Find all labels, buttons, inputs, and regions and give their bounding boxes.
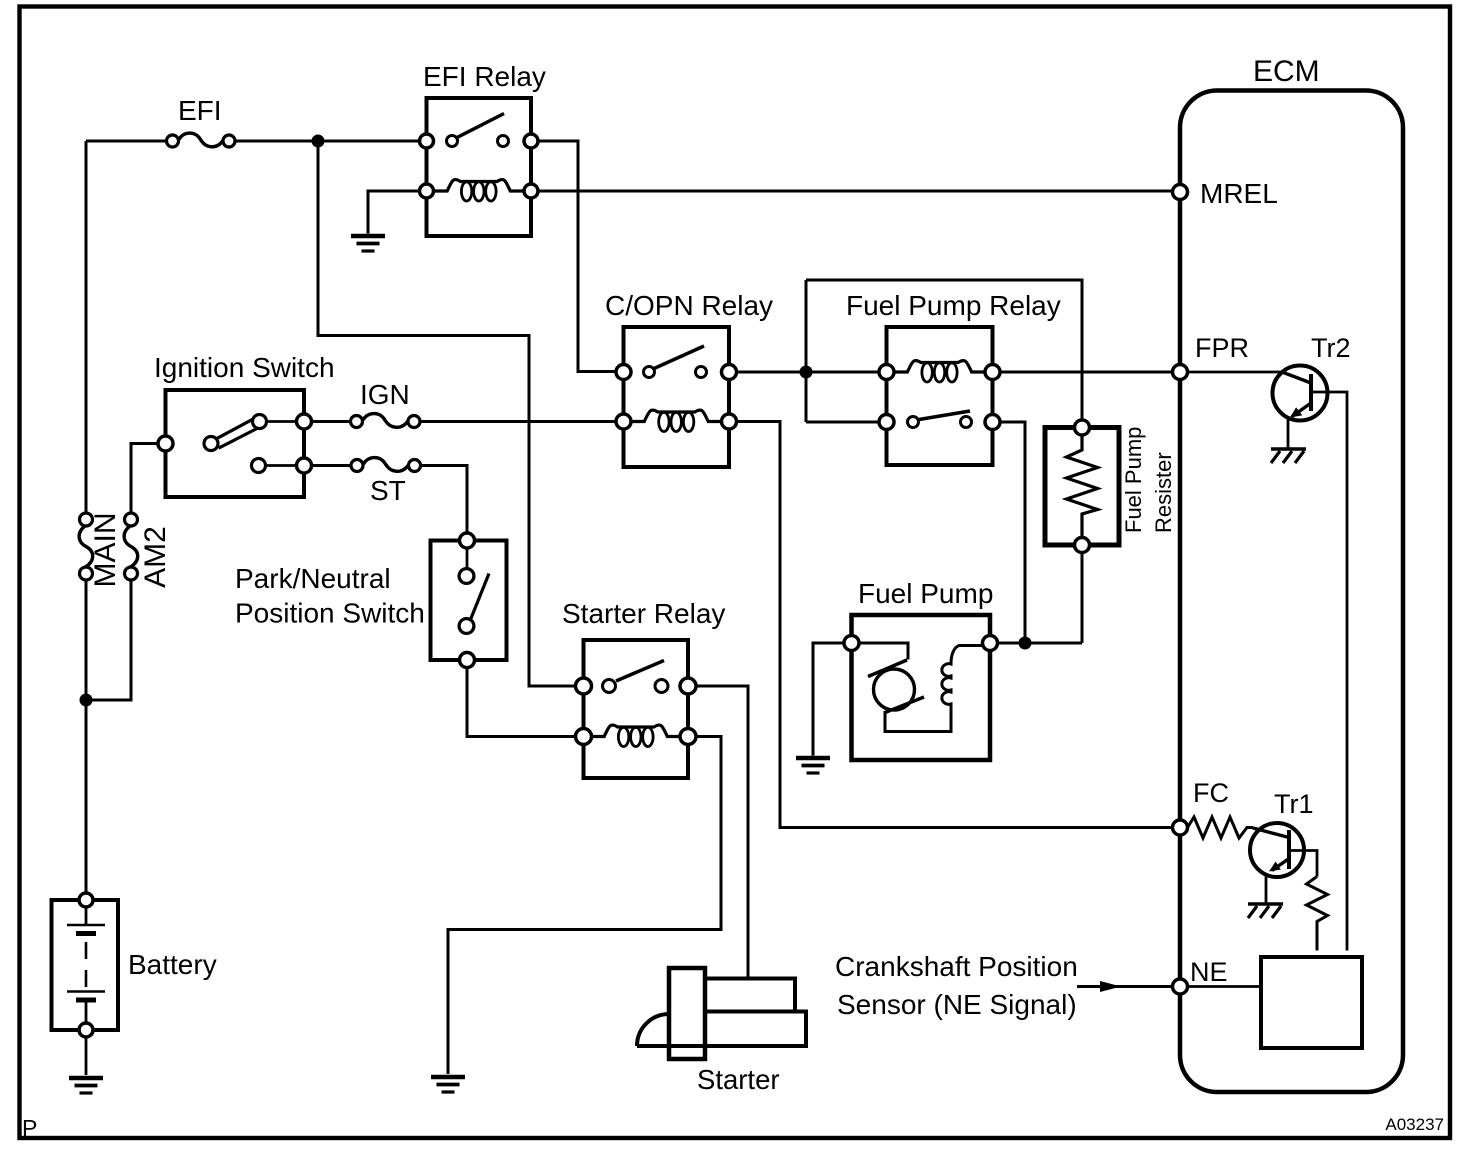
svg-text:ST: ST bbox=[370, 475, 406, 506]
svg-text:P: P bbox=[22, 1115, 37, 1141]
svg-text:Fuel Pump: Fuel Pump bbox=[858, 578, 993, 609]
svg-text:MAIN: MAIN bbox=[89, 513, 122, 588]
svg-text:Resister: Resister bbox=[1151, 452, 1176, 533]
svg-text:Starter: Starter bbox=[697, 1064, 780, 1095]
svg-text:Fuel Pump Relay: Fuel Pump Relay bbox=[846, 290, 1061, 321]
svg-text:Sensor (NE Signal): Sensor (NE Signal) bbox=[837, 989, 1077, 1020]
svg-text:Crankshaft Position: Crankshaft Position bbox=[835, 951, 1078, 982]
svg-text:Starter Relay: Starter Relay bbox=[562, 598, 725, 629]
svg-text:Battery: Battery bbox=[128, 949, 217, 980]
svg-text:AM2: AM2 bbox=[139, 526, 172, 588]
svg-text:MREL: MREL bbox=[1200, 178, 1278, 209]
svg-text:EFI Relay: EFI Relay bbox=[423, 61, 546, 92]
svg-text:A03237: A03237 bbox=[1385, 1115, 1444, 1134]
svg-text:FC: FC bbox=[1193, 778, 1229, 808]
svg-text:Position Switch: Position Switch bbox=[235, 598, 425, 629]
svg-text:NE: NE bbox=[1190, 957, 1228, 987]
svg-text:IGN: IGN bbox=[360, 379, 410, 410]
svg-text:Park/Neutral: Park/Neutral bbox=[235, 563, 391, 594]
svg-text:Tr1: Tr1 bbox=[1274, 789, 1314, 819]
svg-text:ECM: ECM bbox=[1253, 55, 1320, 88]
svg-text:Tr2: Tr2 bbox=[1311, 333, 1351, 363]
svg-text:FPR: FPR bbox=[1195, 333, 1249, 363]
svg-text:Fuel Pump: Fuel Pump bbox=[1121, 427, 1146, 533]
svg-text:Ignition Switch: Ignition Switch bbox=[154, 352, 335, 383]
svg-text:C/OPN Relay: C/OPN Relay bbox=[605, 290, 773, 321]
svg-text:EFI: EFI bbox=[178, 95, 222, 126]
